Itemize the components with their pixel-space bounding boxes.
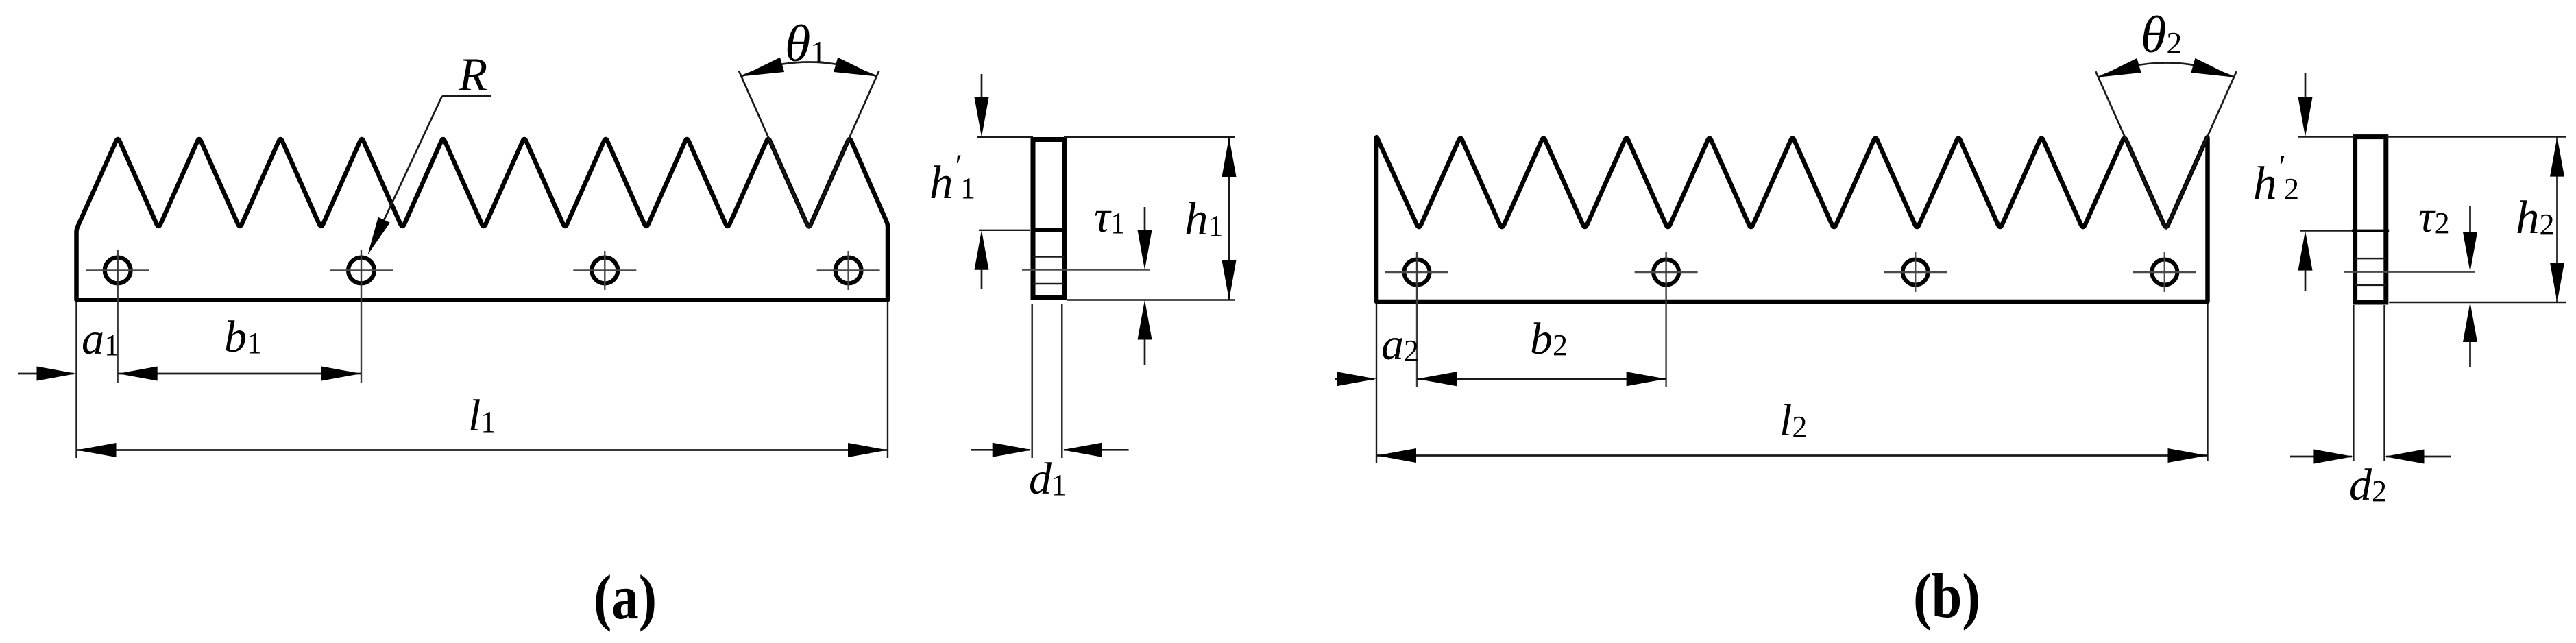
side view B bottom extension right xyxy=(2389,302,2566,303)
svg-text:h2: h2 xyxy=(2516,191,2555,243)
svg-text:θ1: θ1 xyxy=(785,15,826,73)
hole A3 vertical centerline xyxy=(604,251,605,290)
theta2 left arc arrowhead xyxy=(2098,58,2141,77)
dim h2 top arrowhead xyxy=(2550,137,2564,177)
dim tau2 upper line xyxy=(2469,206,2471,233)
hole B1 (mounting hole circle) xyxy=(1405,260,1430,285)
dim l1 right arrowhead xyxy=(848,443,888,457)
dim h'1 upper arrowhead xyxy=(975,97,989,137)
dim h2 bottom arrowhead xyxy=(2550,263,2564,302)
side view A face line 2 xyxy=(1033,283,1065,285)
R leader underline xyxy=(442,95,491,97)
dim h1 top arrowhead xyxy=(1222,137,1237,177)
dim d1 right line xyxy=(1064,449,1129,451)
side view A face line 1 xyxy=(1033,256,1065,258)
hole A3 (mounting hole circle) xyxy=(592,258,618,284)
dim a2 outside arrowhead xyxy=(1337,372,1376,386)
hole A4 (mounting hole circle) xyxy=(836,258,862,284)
side view A centerline xyxy=(1022,269,1150,270)
svg-text:d2: d2 xyxy=(2349,460,2387,510)
side view A rectangle (blade cross-section) xyxy=(1033,140,1065,298)
svg-text:a1: a1 xyxy=(82,314,119,364)
dim tau1 lower line xyxy=(1144,339,1146,365)
theta2 left flank extension line xyxy=(2095,71,2166,229)
dim d2 extension right xyxy=(2383,305,2385,461)
dim tau2 lower line xyxy=(2469,341,2471,367)
dim d1 right arrowhead xyxy=(1062,443,1102,457)
side view B rectangle (blade cross-section) xyxy=(2355,137,2386,302)
dim d1 left line xyxy=(971,449,1030,451)
theta1 dimension arc xyxy=(742,62,877,76)
dim a1 outside arrow line xyxy=(18,373,74,375)
dim h'2 lower line xyxy=(2305,269,2307,291)
hole B1 horizontal centerline xyxy=(1385,271,1448,273)
hole B1 vertical centerline / extension line xyxy=(1416,252,1418,387)
hole A4 horizontal centerline xyxy=(817,269,880,271)
hole B4 vertical centerline xyxy=(2164,252,2165,292)
dim h1 bottom arrowhead xyxy=(1222,260,1237,300)
hole B4 (mounting hole circle) xyxy=(2152,260,2177,285)
side view A tooth-root line (thick) xyxy=(1031,228,1067,233)
svg-text:l1: l1 xyxy=(468,391,496,441)
hole B2 horizontal centerline xyxy=(1635,271,1698,273)
svg-text:τ1: τ1 xyxy=(1094,192,1126,242)
svg-text:d1: d1 xyxy=(1029,454,1067,504)
theta2 right arc arrowhead xyxy=(2191,58,2234,77)
svg-text:θ2: θ2 xyxy=(2141,6,2182,64)
blade A outline (serrated cutter bar, front view) xyxy=(77,139,888,300)
side view A root-line extension left xyxy=(979,230,1030,231)
hole B2 (mounting hole circle) xyxy=(1653,260,1679,285)
extension line, blade A left edge xyxy=(75,302,77,458)
side view A top extension left xyxy=(977,136,1033,138)
side view B centerline xyxy=(2344,271,2475,273)
dim b2 left arrowhead xyxy=(1417,372,1457,386)
svg-text:h1: h1 xyxy=(1184,193,1224,245)
dim d2 extension left xyxy=(2353,305,2354,461)
dim tau1 lower arrowhead xyxy=(1138,300,1152,340)
hole A2 vertical centerline / extension line xyxy=(361,250,362,383)
svg-text:τ2: τ2 xyxy=(2418,192,2450,242)
theta2 right flank extension line xyxy=(2166,71,2237,229)
svg-text:R: R xyxy=(458,49,487,101)
hole A1 vertical centerline / extension line xyxy=(117,250,118,383)
hole A3 horizontal centerline xyxy=(573,269,636,271)
blade B outline (serrated cutter bar, front view) xyxy=(1376,137,2208,302)
svg-text:a2: a2 xyxy=(1381,319,1419,369)
dim d2 right arrowhead xyxy=(2385,450,2425,464)
theta1 right flank extension line xyxy=(809,71,879,228)
hole B3 (mounting hole circle) xyxy=(1903,260,1928,285)
theta1 left arc arrowhead xyxy=(742,58,785,77)
dim a2 outside arrow line xyxy=(1335,378,1374,380)
dim h'2 lower arrowhead xyxy=(2298,231,2313,271)
hole A2 horizontal centerline xyxy=(330,269,393,271)
svg-text:(a): (a) xyxy=(594,562,657,632)
dim b1 line xyxy=(118,373,361,375)
dim h'2 upper arrowhead xyxy=(2298,97,2313,137)
dim d1 extension left xyxy=(1031,304,1032,458)
hole B3 vertical centerline xyxy=(1915,252,1916,292)
extension line, blade A right edge xyxy=(887,302,888,458)
dim l2 right arrowhead xyxy=(2168,448,2208,463)
theta1 right arc arrowhead xyxy=(834,58,877,77)
dim b1 left arrowhead xyxy=(118,367,158,381)
side view B top extension right xyxy=(2386,136,2566,137)
dim h'1 lower arrowhead xyxy=(975,230,989,270)
svg-text:b1: b1 xyxy=(224,312,262,362)
extension line, blade B right edge xyxy=(2207,304,2208,461)
theta2 dimension arc xyxy=(2098,63,2234,77)
extension line, blade B left edge xyxy=(1376,304,1377,463)
side view B face line 2 xyxy=(2355,284,2386,287)
R leader arrowhead xyxy=(368,217,390,255)
dim l1 line xyxy=(77,449,888,451)
dim h2 line xyxy=(2556,137,2558,302)
side view B tooth-root line xyxy=(2352,230,2390,232)
R leader line xyxy=(371,96,442,248)
svg-text:b2: b2 xyxy=(1530,314,1568,364)
dim h1 line xyxy=(1228,137,1230,300)
dim l1 left arrowhead xyxy=(77,443,117,457)
dim d2 left line xyxy=(2290,456,2352,458)
dim a1 outside arrowhead xyxy=(37,367,77,381)
theta1 left flank extension line xyxy=(739,71,809,228)
dim tau1 upper arrowhead xyxy=(1138,230,1152,270)
svg-text:h′1: h′1 xyxy=(929,148,975,208)
svg-text:(b): (b) xyxy=(1913,561,1980,631)
dim b2 line xyxy=(1417,378,1666,380)
dim d1 left arrowhead xyxy=(993,443,1032,457)
dim tau2 upper arrowhead xyxy=(2463,232,2477,272)
dim d1 extension right xyxy=(1061,304,1062,458)
hole A1 horizontal centerline xyxy=(86,269,149,271)
side view A top extension right xyxy=(1064,136,1235,138)
dim l2 line xyxy=(1376,454,2208,457)
hole B3 horizontal centerline xyxy=(1884,271,1947,273)
dim tau2 lower arrowhead xyxy=(2463,302,2477,342)
dim h'1 lower line xyxy=(981,269,983,289)
dim tau1 upper line xyxy=(1144,207,1146,232)
dim d2 right line xyxy=(2386,456,2451,458)
dim h'2 upper line xyxy=(2305,73,2307,99)
dim d2 left arrowhead xyxy=(2313,450,2353,464)
hole A4 vertical centerline xyxy=(847,251,849,290)
hole A2 (mounting hole circle) xyxy=(348,258,374,284)
hole A1 (mounting hole circle) xyxy=(105,258,131,284)
svg-text:l2: l2 xyxy=(1779,396,1807,446)
dim b2 right arrowhead xyxy=(1627,372,1666,386)
dim h'1 upper line xyxy=(981,74,983,100)
side view A bottom extension right xyxy=(1067,299,1235,300)
hole B2 vertical centerline / extension line xyxy=(1665,252,1666,387)
dim l2 left arrowhead xyxy=(1376,448,1416,463)
svg-text:h′2: h′2 xyxy=(2253,149,2299,209)
side view B face line 1 xyxy=(2355,258,2386,260)
dim b1 right arrowhead xyxy=(321,367,361,381)
side view B top extension left xyxy=(2298,136,2355,137)
side view B root-line extension left xyxy=(2300,230,2352,231)
hole B4 horizontal centerline xyxy=(2133,271,2196,273)
